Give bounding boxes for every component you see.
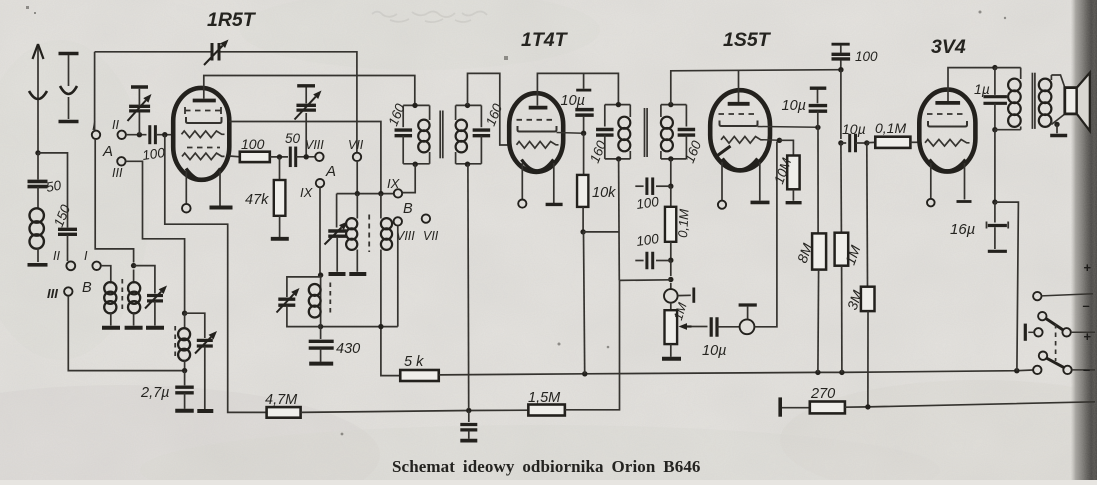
contact III (bank A) [117,157,125,165]
node bus/8M [815,370,820,375]
svg-text:47k: 47k [245,192,269,208]
wire detector node to 1.5M riser [620,279,671,282]
wire main B- bus [439,370,1033,375]
wire 50 cap to contact VIII [296,156,315,158]
antenna socket / earth capacitor symbol [59,52,79,55]
svg-text:–: – [1083,362,1090,377]
svg-text:10µ: 10µ [842,121,866,137]
wire contact III-B to LW coil bottom node [68,296,183,371]
tube 1R5T cathode pin to chassis [219,171,221,206]
tube 1S5T plate lead [758,126,818,129]
ground (430) [309,362,333,366]
wire IFT2 secondary top [661,104,687,106]
wire contact III-A to LW coil top node [126,161,185,312]
ground (MW secondary) [125,326,143,330]
capacitor 100 (detector 2) [635,260,643,262]
wire IFT1 secondary top [456,104,482,106]
capacitor 160 (IFT1 secondary) [480,105,482,127]
tube 1S5T top electrode [728,102,750,106]
svg-text:0,1M: 0,1M [875,120,906,136]
node 270/3M [865,404,870,409]
node 10u AF-2 tap [838,140,843,145]
ground (switch) [1024,324,1027,341]
node 10k/IFT2 return [580,229,585,234]
wire to 47k node [270,156,288,158]
svg-text:50: 50 [285,131,301,146]
tube 1R5T filament pin + terminal circle [185,171,187,204]
contact III (bank B) [64,287,72,295]
capacitor AVC bypass [468,411,470,423]
ground (B- rail) [778,397,782,416]
wire IFT2 secondary bottom [661,158,687,160]
svg-text:III: III [47,286,58,301]
ground (MW trimmer) [146,326,164,330]
potentiometer 1M (volume) [670,303,672,311]
svg-text:10µ: 10µ [782,98,806,114]
coil MW antenna primary [110,278,112,284]
node MW coil top [131,263,136,268]
node LW coil bottom [182,368,187,373]
node 3V4 grid / 3M [856,142,867,144]
svg-text:100: 100 [141,145,166,163]
tube 1T4T top electrode [529,106,548,110]
trimmer capacitor (MW) [147,294,163,297]
wire IFT2 secondary bottom down [670,159,672,186]
svg-text:1T4T: 1T4T [521,29,569,51]
svg-text:10k: 10k [592,185,616,201]
contact VII (top) [353,153,361,161]
core (MW coil, dashed) [121,279,123,313]
node gang-2 junction [304,154,309,159]
switch contact pole2 out [1063,366,1071,374]
output transformer primary top [995,67,1021,69]
ground (speaker) [1050,134,1067,137]
switch contact (bus) [1033,366,1041,374]
wire 3V4 plate to output transformer [948,68,995,90]
svg-text:VII: VII [423,229,439,243]
wire padder bottom rail [321,326,398,328]
node gang-1 junction [137,132,142,137]
tube 1S5T grid lead to 10M [764,139,780,142]
svg-text:1µ: 1µ [974,81,990,97]
tube 1S5T filament arc [723,159,758,170]
coil MW oscillator [320,275,322,327]
svg-text:270: 270 [810,386,835,402]
svg-text:4,7M: 4,7M [265,392,298,408]
svg-text:B: B [82,280,92,296]
ground (1T4T) [546,203,563,206]
coil OT primary [1020,68,1022,79]
ground (47k) [271,237,289,241]
tube 1R5T filament arc [186,169,221,181]
wire AVC from grid node down-right [165,135,267,413]
wire terminal +A [1042,294,1093,296]
svg-text:0,1M: 0,1M [675,208,692,238]
wire IFT1 primary bottom [403,163,429,165]
node IFT1 primary top [412,103,417,108]
resistor 5k [400,370,439,381]
tube 1T4T filament pin terminal [521,163,523,199]
wire coupling cap to grid terminal [717,326,739,328]
tube 3V4 cathode pin [964,163,966,200]
wire B+ line down right side [994,130,996,202]
tube 1R5T grid rows [185,110,221,112]
contact II (bank A) [118,131,126,139]
resistor 10k [583,133,585,175]
wire VIII-B down to padder rail [397,226,399,327]
svg-text:100: 100 [855,49,878,64]
wire terminal -A [1071,331,1095,333]
wire node to IFT2 primary return [583,231,619,233]
antenna symbol [37,46,39,153]
contact VIII (bank B) [394,217,402,225]
grid terminal circle (1S5T) [740,319,755,334]
wire oscillator top bus y=51 [95,51,211,53]
resistor 270 [810,402,845,414]
resistor 0.1M (3V4 grid stopper) [867,141,876,143]
node bus/1M [839,370,844,375]
tube 1R5T dashed row [187,147,220,149]
trimmer capacitor (MW osc) [287,277,321,297]
wire IFT1 primary top [403,104,429,106]
ground (LW trimmer) [197,409,213,413]
node speaker return [1054,122,1059,127]
tube 3V4 envelope [919,90,975,172]
tube 1S5T diode plate stroke [718,146,731,156]
ground (1M pot) [662,357,681,361]
contact I (bank B) [92,262,100,270]
svg-text:2,7µ: 2,7µ [140,385,170,401]
tube 1S5T zigzag [721,137,764,144]
node bus/switch [1014,368,1019,373]
switch chassis contact [1034,328,1042,336]
wire 0.1M to 3V4 grid [910,141,919,143]
svg-text:III: III [112,166,123,180]
wire IFT2 primary bottom down to detector line [618,159,621,281]
capacitor 100 (grid bus bypass) [832,43,850,46]
resistor 47k [279,157,281,181]
node IFT1 primary bottom [413,162,418,167]
wire to node 2 [670,242,672,260]
coil OT secondary [1050,75,1052,80]
svg-text:10µ: 10µ [561,93,585,109]
wire contact IX-A down to padder [319,187,321,273]
resistor 1.5M [528,405,565,416]
resistor 8M (plate load) [817,127,819,233]
wire oscillator transformer top rail [337,193,394,195]
svg-text:IX: IX [387,176,401,191]
tube 1R5T top electrode [193,99,216,103]
loudspeaker [1065,88,1077,114]
svg-text:1R5T: 1R5T [207,9,257,31]
ground (MW primary) [102,326,120,330]
wire 1M divider line down [840,70,842,139]
coil osc secondary [380,194,382,219]
ground (AVC bypass) [460,439,477,443]
variable capacitor gang 2 [305,113,307,157]
capacitor 16u (electrolytic) [994,202,996,222]
tube 3V4 grid rows [927,113,967,115]
node IFT2 secondary bottom [668,156,673,161]
wire 150 cap to contact II [67,235,69,261]
contact VII (bank B) [422,214,430,222]
tube 1S5T filament pin terminal [721,162,723,200]
wire 4.7M to AVC bus [301,410,528,412]
switch contact (top feed) [1033,292,1041,300]
node padder rail mid [378,324,383,329]
ground (3V4) [957,200,972,203]
trimmer capacitor (LW) [185,313,205,338]
svg-text:100: 100 [241,136,265,152]
svg-text:II: II [112,118,119,132]
tube 1S5T cathode pin [759,162,761,201]
tube 1R5T zigzag grid 1 [182,131,225,138]
wire grid circle to 1S5T grid riser [754,142,777,327]
svg-text:50: 50 [45,177,63,194]
wire IFT2 secondary top to 1S5T grid bus [671,70,841,105]
capacitor 2.7u [184,371,186,386]
trimmer capacitor (osc transformer) [336,194,338,228]
contact IX (bank A centre) [316,179,324,187]
svg-text:5 k: 5 k [404,354,424,370]
wire 10k bottom [582,207,584,232]
wire IFT1 secondary bottom [456,163,482,165]
svg-text:B: B [403,201,413,217]
node 1S5T grid / 10M [777,138,782,143]
ground (2.7u) [175,409,194,413]
contact I (bank A) [92,131,100,139]
svg-text:10µ: 10µ [702,343,726,359]
wire OT secondary bottom [1051,114,1064,125]
capacitor 10u (plate decoupling) [817,89,819,103]
wire ground to 270 [782,407,810,409]
wire IFT2 primary top [605,104,631,106]
tube 1S5T grid rows [719,113,758,115]
node 1S5T plate [815,125,820,130]
node IFT1 secondary top [465,103,470,108]
wire VII to oscillator transformer [356,161,358,192]
capacitor 50 (to VIII) [289,147,292,168]
wire 1R5T top to oscillator-anode bus y=75.5 [204,76,415,104]
node grid bus / 1M divider [838,67,843,72]
wire terminal +B [1072,369,1095,371]
svg-text:100: 100 [635,194,660,212]
node detector cap 1 [668,184,673,189]
wire IFT2 primary bottom [605,158,631,160]
tube 3V4 top electrode [935,101,960,105]
tube 1R5T zigzag grid 2 [182,153,225,160]
node antenna junction [35,150,40,155]
coil osc primary [356,194,358,219]
core (MW osc, dashed) [329,283,331,317]
coil LW [184,313,186,329]
coil antenna (left) [37,187,39,209]
resistor 10M (grid leak) [779,140,793,155]
wire osc secondary down to padder and 5k [381,250,400,376]
node 1u / OT top [992,65,997,70]
wire node down to bus [584,232,585,374]
switch pole 1 [1038,312,1046,320]
ground (osc trimmer) [329,272,346,276]
wire node to trimmer lead [134,266,155,294]
ground (1S5T) [751,201,770,205]
tube 1T4T filament arc [522,160,554,171]
node IFT1 secondary bottom [465,162,470,167]
svg-text:1S5T: 1S5T [723,29,772,51]
capacitor 1u (tone) [994,68,996,95]
grid terminal top bar [747,307,749,320]
wire B+ to switch column [995,202,1019,371]
svg-text:VIII: VIII [396,229,415,243]
wire OT secondary top to speaker [1051,75,1064,88]
wire 1.5M up to detector line [565,280,620,409]
ground (10M) [786,201,802,204]
node screen junction [581,131,586,136]
resistor 3M (grid return) [866,143,869,287]
tube 1T4T envelope [509,93,563,172]
switch contact pole1 out [1062,328,1070,336]
tube 3V4 filament arc [930,160,966,171]
resistor 0.1M (detector) [670,186,672,207]
specks [26,6,1006,435]
svg-text:A: A [102,143,113,160]
node LW coil top [182,311,187,316]
wire contact II to 1R5T grid [126,134,147,136]
node 16u / B+ [992,199,997,204]
wire IFT1 secondary top to 1T4T grid [468,73,509,145]
node grid/AVC junction [162,132,167,137]
resistor 1M (divider) [840,143,843,233]
wire 270 to negative terminal [845,402,1095,407]
wire IFT1 primary bottom to contact IX-B [403,164,416,192]
svg-text:+: + [1084,260,1092,275]
svg-text:100: 100 [635,231,660,249]
svg-text:VIII: VIII [305,138,324,152]
svg-text:IX: IX [300,185,314,200]
ground (osc coil) [349,272,366,276]
capacitor 10u (1T4T screen) [583,73,585,88]
svg-text:A: A [325,163,336,180]
svg-text:II: II [53,249,60,263]
contact VIII (bank A centre) [315,153,323,161]
diode plate symbol [670,283,672,289]
node osc top right [378,191,383,196]
svg-text:I: I [84,249,88,263]
capacitor 10u (AF coupling) [710,317,713,337]
wire IFT1 secondary bottom down to AVC bus [467,164,470,409]
wire contact I down to band-switch coils [95,139,133,263]
svg-text:1,5M: 1,5M [528,390,561,406]
capacitor 50 (left) [37,153,39,180]
output transformer primary bottom [995,129,1021,131]
svg-text:3V4: 3V4 [931,36,966,58]
faint stamp smudge (illegible) [372,11,487,22]
capacitor 160 (IFT2 primary) [604,105,606,127]
tube 3V4 zigzag [925,140,970,147]
resistor 100 (1R5T output) [229,155,240,158]
variable capacitor gang 1 [138,113,140,135]
node detector cap 2 [668,258,673,263]
scan page edge band [1071,0,1097,480]
wire 100 cap to tube grid [156,134,173,136]
coil IFT1 primary [429,105,431,120]
core (IFT1) [439,111,441,159]
node detector output [668,277,673,282]
wire contact I to MW coil [101,266,111,278]
wire screen bus y=121.5 from tube to oscillator transformer [229,122,381,193]
capacitor 430 [320,327,322,339]
wire antenna to 150 cap [38,153,68,228]
svg-text:VII: VII [348,138,364,152]
tube 1T4T screen lead [557,132,584,135]
coil IFT1 secondary [455,105,457,120]
resistor 4.7M [267,407,301,418]
svg-text:Schemat ideowy odbiornika Orio: Schemat ideowy odbiornika Orion B646 [392,457,701,476]
capacitor 160 (IFT1 primary) [402,105,404,127]
terminal bar below antenna coil [28,263,48,267]
core (output transformer) [1031,73,1033,129]
node IFT2 primary bottom [616,156,621,161]
node IFT2 primary top [616,102,621,107]
wire detector node [670,260,672,276]
svg-text:+: + [1084,329,1092,344]
svg-text:–: – [1083,298,1090,313]
wire 1S5T top to grid bus [738,71,740,90]
contact IX (bank B) [394,189,402,197]
tube 3V4 filament pin terminal [930,163,932,199]
svg-text:430: 430 [336,341,360,357]
capacitor 150 [58,228,77,231]
capacitor 100 (detector 1) [635,185,643,187]
node padder top [318,272,323,277]
capacitor 160 (IFT2 secondary) [685,105,687,127]
wire wiper to coupling cap [692,326,708,328]
tube 1T4T zigzag [517,142,559,149]
node padder rail left [318,324,323,329]
coil IFT2 primary [629,105,631,117]
node 47k junction [277,154,282,159]
node OT bottom [992,127,997,132]
ground (1R5T) [210,206,233,210]
tube 1S5T envelope [710,90,770,170]
wire left bus from top corner to contact I [94,52,96,131]
node osc top left [355,191,360,196]
tube 1T4T grid rows [517,119,557,121]
core (LW coil, dashed) [174,326,176,357]
core (osc transformer, dashed) [368,215,370,253]
tube 1R5T envelope [173,88,229,180]
coil IFT2 secondary [660,105,662,117]
switch pole 2 [1039,352,1047,360]
trimmer capacitor on oscillator bus [211,43,214,61]
core (IFT2) [644,108,646,157]
wire 1T4T top to plate bus [537,73,618,103]
node IFT2 secondary top [668,102,673,107]
capacitor 100 (grid) [147,134,149,136]
tube 1T4T cathode pin [553,163,555,203]
node bus/10k [582,371,587,376]
node AVC bypass [466,408,471,413]
coil MW antenna secondary [133,270,135,284]
svg-text:16µ: 16µ [950,221,975,238]
switch gang link (dashed) [1055,324,1057,361]
capacitor 10u (3V4 grid coupling) [841,142,846,144]
contact II (bank B) [66,261,75,270]
